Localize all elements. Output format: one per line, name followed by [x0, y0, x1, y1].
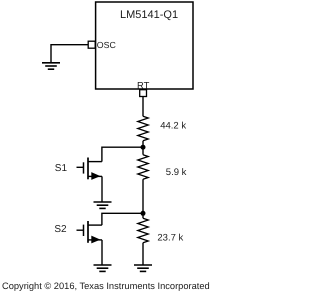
wire S2 source to ground	[101, 240, 103, 265]
svg-text:5.9 k: 5.9 k	[166, 167, 187, 178]
svg-text:Copyright © 2016, Texas Instru: Copyright © 2016, Texas Instruments Inco…	[2, 281, 210, 291]
resistor R1	[138, 116, 148, 141]
ground G3	[94, 265, 112, 271]
wire R1 to node A	[142, 141, 144, 147]
wire OSC to ground	[51, 45, 88, 63]
wire RT to R1	[142, 97, 144, 117]
node A	[141, 145, 146, 150]
ground G1	[42, 63, 60, 69]
transistor S1	[55, 158, 102, 180]
svg-text:OSC: OSC	[97, 40, 117, 50]
svg-text:S1: S1	[55, 163, 68, 174]
node B	[141, 211, 146, 216]
pin OSC	[88, 40, 116, 50]
IC U1 LM5141-Q1	[96, 2, 193, 89]
pin RT	[137, 79, 150, 96]
ground G2	[94, 202, 112, 208]
wire node B to S2 drain	[102, 213, 143, 225]
svg-text:S2: S2	[54, 224, 67, 235]
svg-text:23.7 k: 23.7 k	[157, 233, 183, 244]
ground G4	[134, 265, 152, 271]
wire S1 source to ground	[101, 176, 103, 201]
svg-text:RT: RT	[137, 79, 150, 90]
wire node A to S1 drain	[102, 147, 143, 161]
svg-text:LM5141-Q1: LM5141-Q1	[120, 9, 178, 21]
svg-text:44.2 k: 44.2 k	[160, 121, 186, 132]
resistor R3	[138, 213, 148, 264]
resistor R2	[138, 147, 148, 213]
transistor S2	[54, 221, 102, 243]
